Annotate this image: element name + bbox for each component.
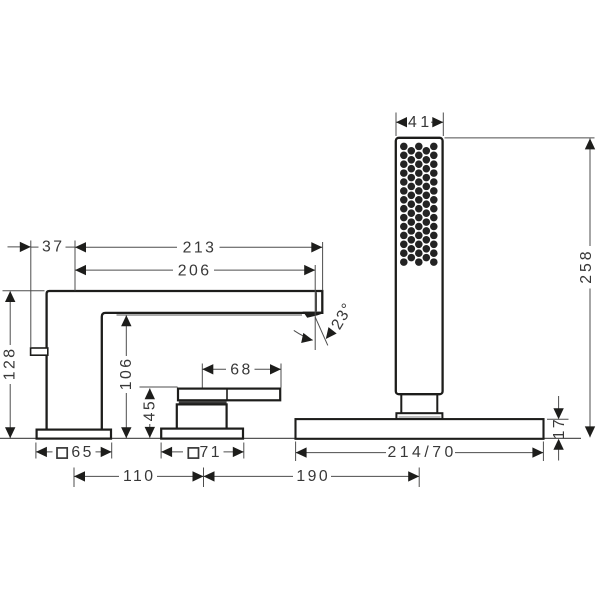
hand shower base plate	[296, 419, 544, 439]
angle 23 deg	[315, 317, 328, 345]
handle base plate	[161, 429, 243, 439]
spout base plate	[37, 430, 111, 439]
dim 45 (vertical)	[149, 389, 151, 399]
handle lever bar	[178, 389, 280, 401]
svg-text:190: 190	[296, 468, 330, 485]
deck / mounting surface line	[0, 437, 581, 439]
svg-text:17: 17	[551, 417, 568, 439]
dim 37	[8, 246, 31, 248]
dim 190	[204, 475, 294, 477]
spout body (left pillar + horizontal arm)	[47, 291, 323, 430]
spout tip inner face line	[315, 292, 317, 311]
dim 68	[202, 368, 226, 370]
dim 41	[396, 121, 406, 123]
svg-text:110: 110	[123, 468, 156, 485]
svg-text:206: 206	[178, 263, 212, 280]
handle lever divider	[226, 389, 228, 401]
dim 213	[75, 246, 177, 248]
dim 17 (vertical, arrows outside)	[558, 396, 560, 409]
svg-text:45: 45	[142, 399, 159, 421]
dim 128 (vertical)	[9, 292, 11, 346]
spout side tab	[31, 348, 48, 355]
dim square-65	[36, 451, 53, 453]
svg-text:68: 68	[230, 361, 252, 378]
svg-text:65: 65	[71, 444, 93, 461]
hand shower flange	[396, 413, 442, 419]
svg-text:71: 71	[199, 444, 221, 461]
svg-text:106: 106	[118, 357, 135, 391]
spout underside shadow line	[117, 314, 303, 316]
dim square-71	[161, 451, 183, 453]
handle dark gap strip	[179, 402, 227, 405]
svg-text:258: 258	[578, 248, 595, 283]
svg-text:37: 37	[42, 239, 64, 256]
spout aerator nub (dark wedge)	[303, 312, 323, 318]
spray face dots	[400, 143, 438, 266]
svg-text:213: 213	[183, 239, 217, 256]
svg-text:128: 128	[2, 347, 19, 381]
extension lines	[30, 241, 32, 349]
svg-text:214/70: 214/70	[387, 444, 456, 461]
dim 206	[75, 269, 173, 271]
dim 258 (vertical)	[589, 138, 591, 246]
dim 110	[74, 475, 119, 477]
handle body	[177, 404, 227, 429]
dim 106 (vertical)	[125, 315, 127, 356]
hand shower neck	[401, 393, 437, 413]
hand shower wand	[396, 138, 443, 394]
dim 214/70	[296, 452, 386, 454]
svg-text:41: 41	[408, 114, 433, 131]
